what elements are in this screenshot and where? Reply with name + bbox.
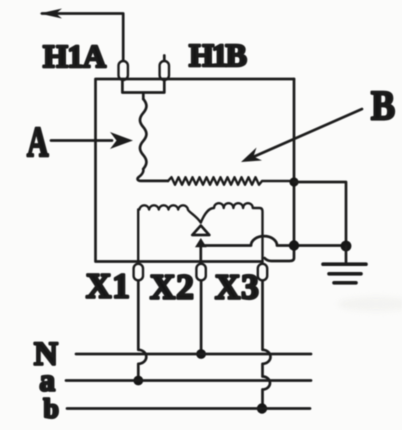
bushing X3 — [258, 264, 267, 281]
node X1-a — [133, 376, 143, 386]
line b — [67, 407, 310, 410]
bushing X1 — [134, 264, 143, 281]
lead X2 to line N — [200, 281, 203, 354]
bushing X2 — [196, 264, 205, 281]
arrow pointing to winding B — [252, 109, 362, 158]
faint scan smudge (decorative) — [338, 297, 402, 311]
arrowhead on neutral wire at X2 — [195, 238, 207, 247]
node X3-b — [257, 403, 267, 413]
line a — [66, 379, 311, 382]
neutral wire X2 to ground node (hops over X3 lead) — [201, 236, 346, 263]
lead X3 to line b (hops over N and a) — [263, 281, 271, 409]
svg-text:H1B: H1B — [189, 37, 246, 73]
svg-text:b: b — [44, 393, 59, 424]
spark gap triangle at center tap — [192, 226, 209, 236]
lead X1 to line a (hops over N) — [138, 281, 146, 381]
svg-text:X2: X2 — [150, 268, 195, 307]
node: winding B output on tank right side — [289, 177, 298, 186]
svg-text:X1: X1 — [86, 267, 131, 306]
transformer tank outline — [96, 79, 295, 262]
bushing H1B — [163, 56, 166, 62]
winding B (horizontal zigzag) — [168, 177, 294, 185]
ground symbol — [345, 246, 348, 262]
primary winding A (vertical wavy coil) — [138, 99, 168, 181]
secondary winding X1-X2 (left coil) — [138, 205, 201, 261]
secondary winding X2-X3 (right coil) — [201, 203, 263, 263]
svg-text:A: A — [27, 120, 49, 166]
jumper bracket H1A-H1B — [122, 80, 164, 99]
tank right side wire with curl to X3 lead — [265, 79, 295, 261]
arrow pointing to winding A — [51, 139, 112, 142]
node X2-N — [196, 349, 206, 359]
wire: node to ground lead — [294, 182, 346, 243]
node: neutral on tank right side — [289, 240, 299, 250]
bushing H1A — [119, 61, 128, 80]
wire: incoming primary lead with arrow — [42, 14, 123, 62]
line N — [76, 353, 311, 356]
node: ground connection — [341, 241, 352, 252]
svg-text:H1A: H1A — [43, 38, 106, 74]
svg-text:X3: X3 — [215, 268, 260, 307]
svg-text:B: B — [371, 82, 395, 128]
